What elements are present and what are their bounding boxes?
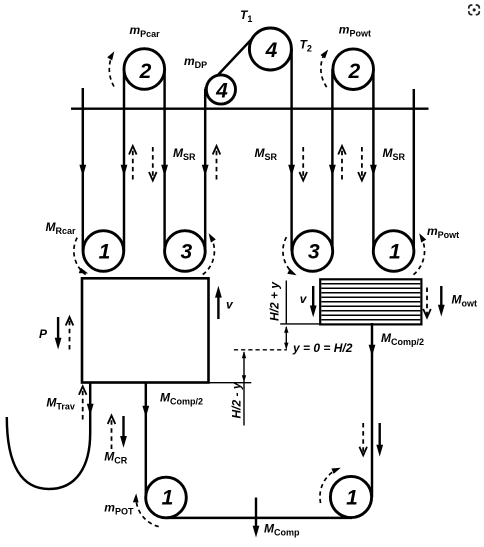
svg-text:y = 0 = H/2: y = 0 = H/2 <box>292 341 353 355</box>
rotation arrow pulley 2 car <box>109 54 114 87</box>
pulley 4 deflection small <box>206 75 235 104</box>
pulley 1 car left <box>83 231 124 272</box>
svg-text:v: v <box>226 298 234 312</box>
arrow M owt down <box>440 286 442 306</box>
dashed arrow up beside P <box>69 320 71 350</box>
pulley 3 cwt left <box>292 231 333 272</box>
svg-text:1: 1 <box>162 487 174 510</box>
arrow M CR down <box>122 416 124 437</box>
rotation arrow pulley 1 cwt right <box>414 236 425 275</box>
rotation arrow pulley 2 cwt <box>321 55 327 87</box>
wire rope anchor left <box>82 88 84 251</box>
svg-text:3: 3 <box>180 241 192 264</box>
svg-text:mDP: mDP <box>184 54 207 70</box>
svg-text:mPowt: mPowt <box>427 224 459 240</box>
pulley 3 car right <box>165 231 206 272</box>
pulley 4 drive large <box>249 28 291 70</box>
dimension arrow y0 to car bottom <box>243 352 245 426</box>
traveling cable <box>7 383 90 490</box>
svg-text:2: 2 <box>139 60 152 83</box>
rotation arrow pulley 1 bottom left <box>136 496 159 527</box>
extension line cwt bottom <box>280 323 321 325</box>
svg-text:MComp/2: MComp/2 <box>381 331 424 347</box>
arrowhead on left anchor rope <box>79 165 86 177</box>
dashed arrow up M CR <box>111 419 113 450</box>
arrow down beside cwt compensation rope <box>379 423 381 445</box>
svg-text:2: 2 <box>347 60 360 83</box>
dashed arrow up beside rope 3-4 <box>216 149 218 180</box>
pulley 2 car side <box>124 49 165 90</box>
svg-text:1: 1 <box>389 240 401 263</box>
pulley 2 cwt side <box>333 49 374 90</box>
dashed arrow up beside rope 3-2 <box>341 149 343 180</box>
svg-text:mPowt: mPowt <box>339 23 371 39</box>
extension line car bottom right <box>209 382 252 384</box>
svg-text:T1: T1 <box>240 8 252 24</box>
arrowhead on rope 3-2 <box>329 165 336 177</box>
counterweight body <box>320 279 421 324</box>
dashed reference line y=0 <box>234 349 287 351</box>
arrow M Comp down <box>255 498 257 527</box>
svg-text:4: 4 <box>265 39 278 62</box>
svg-text:1: 1 <box>99 240 111 263</box>
dashed arrow down above pulley 1 bottom right <box>362 423 364 452</box>
svg-text:mPcar: mPcar <box>130 23 161 39</box>
pulley 1 bottom left <box>146 477 187 518</box>
compensation rope below car <box>145 383 147 498</box>
wire rope 2-3 <box>163 69 165 251</box>
svg-text:H/2 + y: H/2 + y <box>268 281 282 321</box>
arrow v cwt down <box>312 286 314 307</box>
pulley 1 cwt right <box>373 231 414 272</box>
rotation arrow pulley 1 car left <box>74 238 86 275</box>
arrow P down <box>57 317 59 339</box>
dashed arrow down beside rope 4-3 <box>302 147 304 178</box>
svg-text:1: 1 <box>346 487 358 510</box>
dashed arrow up M Trav <box>82 390 84 420</box>
svg-text:MSR: MSR <box>255 146 278 162</box>
svg-text:3: 3 <box>308 241 320 264</box>
rotation arrow pulley 3 cwt left <box>283 237 294 274</box>
svg-text:MSR: MSR <box>173 146 196 162</box>
svg-text:H/2 - y: H/2 - y <box>230 381 244 418</box>
svg-text:P: P <box>39 327 48 341</box>
arrowhead on rope 1-2 <box>121 165 128 177</box>
dimension arrow cwt bottom to y0 <box>285 327 287 349</box>
wire rope anchor right <box>413 89 415 251</box>
wire rope 2-1 right <box>372 69 374 251</box>
svg-text:MRcar: MRcar <box>46 220 77 236</box>
pulley 1 bottom right <box>330 476 371 517</box>
svg-text:4: 4 <box>215 79 228 102</box>
arrowhead on rope 2-3 <box>161 165 168 177</box>
arrowhead on rope 2-1 <box>370 165 377 177</box>
svg-text:Mowt: Mowt <box>452 293 478 309</box>
wire rope 4-3 right <box>290 49 292 251</box>
dashed arrow down beside rope 2-1 <box>361 147 363 178</box>
viewer focus icon top right <box>469 5 480 15</box>
svg-text:mPOT: mPOT <box>104 501 134 517</box>
wire rope 3-2 right <box>331 69 333 251</box>
svg-text:T2: T2 <box>300 38 312 54</box>
svg-text:MComp/2: MComp/2 <box>160 391 203 407</box>
svg-text:MComp: MComp <box>264 522 300 538</box>
svg-text:MSR: MSR <box>383 146 406 162</box>
dashed arrow down beside cwt <box>426 288 428 316</box>
rotation arrow pulley 3 car right <box>203 235 215 274</box>
extension line H/2+y vertical <box>285 281 287 324</box>
dashed arrow down beside rope 2-3 <box>152 147 154 178</box>
rotation arrow pulley 1 bottom right <box>320 469 339 503</box>
wire rope 3-4 vertical <box>204 89 206 252</box>
arrowhead on rope 4-3 <box>288 165 295 177</box>
counterweight hatch lines <box>322 284 421 320</box>
svg-text:v: v <box>300 292 308 306</box>
arrow v car up <box>217 298 219 320</box>
svg-text:MTrav: MTrav <box>46 396 75 412</box>
arrowhead on rope 3-4 <box>202 165 209 177</box>
dashed arrow up beside rope 1-2 <box>132 149 134 180</box>
wire rope diagonal 4-4 <box>205 34 256 88</box>
wire rope car 1-2 <box>123 69 125 251</box>
car body <box>82 278 209 382</box>
svg-text:MCR: MCR <box>104 450 127 466</box>
bottom compensation rope <box>166 517 352 519</box>
compensation rope below counterweight <box>371 323 373 497</box>
machine beam <box>71 107 429 109</box>
